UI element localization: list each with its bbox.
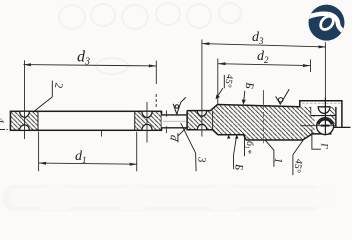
- hole dome rp-bottom: [197, 124, 206, 129]
- pin faint mid line: [163, 120, 186, 122]
- step line right: [333, 126, 351, 128]
- bottom mid tick: [101, 130, 103, 136]
- pin top edge: [162, 114, 188, 116]
- svg-text:45°: 45°: [222, 73, 235, 88]
- pin body: [162, 115, 188, 128]
- label b1*: [244, 135, 246, 156]
- hole dome rp-top: [197, 111, 206, 117]
- dim d1: [39, 132, 138, 172]
- faint watermark ghost bottom band: [2, 185, 322, 211]
- label 2 with leader: [35, 81, 53, 111]
- dim d2: [218, 59, 311, 105]
- hatch boundary tick: [310, 107, 312, 116]
- label 1 with leader: [265, 140, 274, 167]
- hole dome right-bottom: [142, 124, 152, 130]
- dome right-end: [318, 107, 330, 114]
- section trace dashed: [262, 90, 264, 105]
- hole circle right-end: [317, 118, 334, 135]
- inner right face: [335, 107, 337, 128]
- pin bottom edge: [162, 127, 188, 129]
- hole thick bar: [321, 125, 330, 127]
- left block divider: [212, 111, 214, 130]
- hole horizontal centerline: [300, 125, 336, 127]
- pin tick bottom: [165, 126, 167, 133]
- hatch right block: [135, 111, 162, 130]
- right block divider: [134, 111, 136, 130]
- right hole centerline: [146, 102, 148, 143]
- label 45 bottom with leader: [293, 140, 304, 176]
- label 3 with leader: [181, 123, 196, 171]
- label d (pin dia): [178, 127, 187, 142]
- hatch left block: [187, 111, 213, 130]
- faint watermark ghosts top: [59, 3, 241, 74]
- axis dash-dot left: [0, 129, 10, 131]
- disc outline: [10, 111, 161, 130]
- hatch central body: [213, 105, 315, 141]
- left block divider: [37, 111, 39, 130]
- label B bottom with leader: [233, 136, 236, 170]
- label 45 top with leader: [216, 75, 224, 98]
- label B top with leader: [244, 91, 245, 104]
- crescent inside hole: [318, 119, 331, 124]
- dim d3 right: [202, 40, 326, 107]
- logo stripe: [307, 14, 345, 32]
- roughness symbol on body top: [276, 89, 290, 104]
- hole dome right-top: [142, 111, 152, 117]
- rim inner dotted: [302, 102, 341, 104]
- hatch right sliver: [330, 107, 336, 128]
- logo oval ring: [318, 14, 336, 32]
- hatch left block: [10, 111, 38, 130]
- left hole centerline: [24, 60, 26, 139]
- label G with leader: [312, 130, 321, 150]
- dim d3 left: [24, 61, 157, 110]
- ledge line at hole: [311, 115, 336, 117]
- pin tick top: [165, 110, 167, 116]
- roughness symbol on pin: [173, 97, 186, 114]
- hole vertical centerline: [324, 97, 326, 135]
- hole dome left-bottom: [20, 125, 30, 130]
- hole centerline rp: [201, 106, 203, 137]
- right part outline: [187, 101, 342, 140]
- hole dome left-top: [20, 111, 30, 117]
- logo circle: [309, 5, 345, 41]
